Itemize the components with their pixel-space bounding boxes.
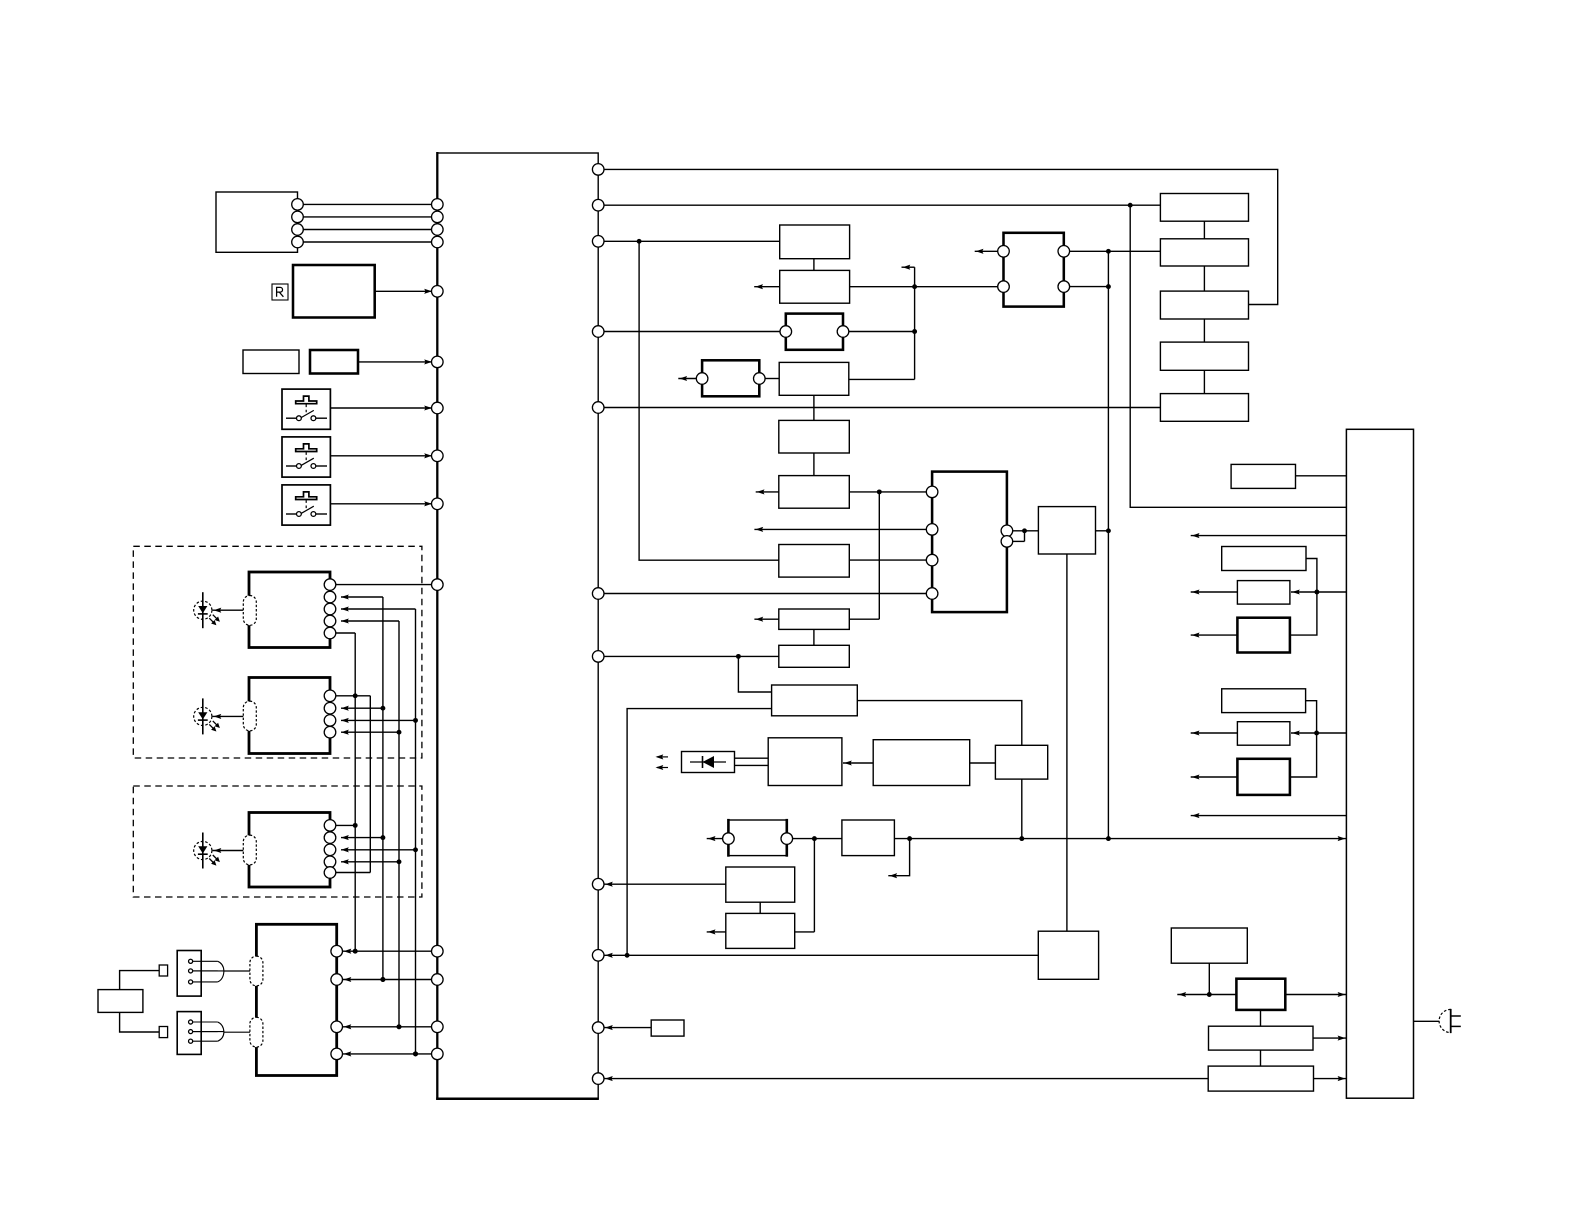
wire tuner bus 4 — [298, 241, 438, 243]
stub arrow J pin1 left — [975, 249, 998, 254]
pin IC right 4 — [592, 326, 604, 338]
pin block A — [324, 579, 336, 591]
pin block H left — [696, 373, 708, 385]
pin block A — [324, 627, 336, 639]
stub arrow H left — [678, 376, 696, 381]
display block C — [249, 813, 330, 888]
block F2 — [780, 270, 850, 303]
wire F5-F6 — [813, 453, 815, 476]
pin block C — [324, 856, 336, 868]
wire Q3 branch — [1290, 592, 1317, 635]
pin key block D — [331, 1021, 343, 1033]
pin block T1 right — [781, 833, 793, 845]
pin IC right 10 — [592, 1022, 604, 1034]
block F8 — [779, 609, 850, 629]
stub arrow below T2 — [888, 839, 909, 879]
block K1 — [1160, 194, 1248, 222]
wire K1-K2 — [1203, 221, 1205, 239]
wire Q6 branch — [1290, 733, 1317, 777]
wire IC pin7 to F9 — [604, 654, 779, 659]
block T2 — [842, 820, 895, 856]
block T3 — [726, 867, 795, 902]
pin block J — [1058, 246, 1070, 258]
wire IC pin4 to G — [604, 331, 780, 333]
pin IC — [432, 211, 444, 223]
wire M right pins to N — [1013, 528, 1039, 541]
pin block H right — [754, 373, 766, 385]
wire F10 out to S3 — [857, 701, 1022, 746]
wire branch to F7 — [639, 241, 779, 560]
block V1 — [1171, 928, 1247, 963]
wire V2 to PSU — [1285, 992, 1346, 997]
wire H to F4 — [765, 378, 779, 380]
pin block J — [998, 246, 1010, 258]
block K5 — [1160, 394, 1248, 422]
IR diode box — [682, 752, 735, 773]
stub arrow Q5 left — [1191, 730, 1238, 735]
block K2 — [1160, 239, 1248, 266]
wire T3 to IC — [604, 882, 726, 887]
pin block A — [324, 603, 336, 615]
pin block A — [324, 591, 336, 603]
stub arrow V2 line — [1177, 992, 1236, 997]
connector capsule D1 — [250, 956, 263, 986]
block F1 — [780, 225, 850, 259]
display block B — [249, 678, 330, 754]
pin IC switch 2 — [432, 450, 444, 462]
wire switch S2 to IC — [330, 453, 432, 458]
wire W to IC — [604, 1025, 651, 1030]
wire S3 down — [1021, 779, 1023, 839]
pin IC right 3 — [592, 236, 604, 248]
wire net A3-B3-C3-D4 — [341, 606, 418, 1056]
wire diode to S1 double — [735, 758, 769, 765]
stub arrow Q3 left — [1191, 633, 1238, 638]
wire switch S3 to IC — [330, 501, 432, 506]
connector block J1 — [177, 951, 250, 997]
wire IC pin1 to K3 — [604, 169, 1278, 304]
pin key block D — [331, 945, 343, 957]
pin block T1 left — [723, 833, 735, 845]
wire V3-V4 — [1260, 1050, 1262, 1066]
IR diode symbol — [690, 756, 726, 768]
block V2 bold — [1236, 979, 1285, 1010]
wire PSU to plug — [1414, 1020, 1440, 1022]
vertical net F2-G-F4 — [849, 265, 917, 380]
block H bold — [702, 360, 759, 396]
block F4 — [779, 362, 849, 395]
wire net B1-C5 — [336, 696, 371, 873]
stub arrow F6 left — [756, 489, 779, 494]
stub arrow PSU line 1 — [1191, 533, 1347, 538]
bus vertical reset line — [1107, 251, 1109, 838]
wire IC pin11 to V4 — [604, 1076, 1208, 1081]
pin block C — [324, 832, 336, 844]
stub arrow Q2 left — [1191, 589, 1238, 594]
push switch S2 — [282, 437, 330, 477]
LED D2 — [194, 698, 220, 734]
wire tuner bus 3 — [298, 229, 438, 231]
wire K3-K4 — [1203, 319, 1205, 342]
connector capsule C — [243, 835, 256, 865]
block Q6 bold — [1237, 759, 1290, 795]
wire L to PSU — [1296, 475, 1347, 477]
wire LED D3 — [212, 848, 243, 853]
pin block M left — [926, 524, 938, 536]
pin block G left — [780, 326, 792, 338]
wire tuner bus 2 — [298, 216, 438, 218]
wire Q1 branch — [1306, 559, 1319, 595]
pin IC — [432, 974, 444, 986]
block G gate bold — [786, 314, 843, 350]
stub arrow M pin2 — [754, 527, 926, 532]
pin IC — [432, 236, 444, 248]
wire to IC — [358, 359, 432, 364]
wire K2-K3 — [1203, 266, 1205, 291]
pin IC right 11 — [592, 1073, 604, 1085]
pin IC right 2 — [592, 199, 604, 211]
pin IC right 1 — [592, 164, 604, 176]
block J twin-pin — [1004, 233, 1064, 307]
block S2 — [873, 740, 970, 786]
connector capsule B — [243, 701, 256, 731]
wire V2-V3 — [1260, 1010, 1262, 1026]
wire V4 to PSU — [1314, 1076, 1347, 1081]
terminal square 1 — [159, 965, 167, 976]
power supply block — [1346, 429, 1413, 1098]
pin tuner — [292, 211, 304, 223]
block S3 — [995, 745, 1047, 779]
pin block B — [324, 702, 336, 714]
pin IC — [432, 1021, 444, 1033]
wire branch to PSU mid — [1130, 205, 1346, 507]
wire S2 to S1 — [843, 760, 873, 765]
wire net A4-B4-C4-D3 — [341, 618, 401, 1029]
wire F6 to M pin1 — [849, 489, 926, 494]
wire IC pin9 to U — [604, 953, 1038, 958]
block V4 — [1208, 1066, 1313, 1091]
stub arrow T4 left — [707, 929, 726, 934]
wire J right pin1 to K2 — [1070, 249, 1161, 254]
pin IC right 6 — [592, 588, 604, 600]
pin block C — [324, 820, 336, 832]
stub arrow F2 left — [754, 284, 780, 289]
block K4 — [1160, 342, 1248, 370]
display block A — [249, 572, 330, 648]
block U — [1038, 931, 1098, 979]
pin IC right 9 — [592, 950, 604, 962]
wire N out to reset line — [1096, 528, 1111, 533]
wire S2 to S3 — [970, 762, 996, 764]
wire G out — [849, 331, 915, 333]
wire V3 to PSU — [1313, 1036, 1346, 1041]
wire F8-F9 — [813, 629, 815, 645]
dashed enclosure display 2 — [133, 786, 422, 897]
LED D3 — [194, 833, 220, 869]
wire key block D pin3 to IC — [343, 1024, 438, 1029]
block Q2 — [1237, 581, 1290, 605]
key block D — [256, 924, 336, 1075]
pin block A — [324, 615, 336, 627]
pin IC — [432, 356, 444, 368]
wire battery to terminal 2 — [120, 1012, 160, 1032]
pin IC — [432, 945, 444, 957]
wire PSU to Q2 — [1291, 589, 1346, 594]
pin block M left — [926, 588, 938, 600]
pin block B — [324, 690, 336, 702]
block W — [651, 1020, 684, 1036]
wire Q4 branch — [1306, 701, 1319, 736]
main system control IC U1 — [436, 152, 599, 1100]
block F9 — [779, 645, 850, 667]
pin key block D — [331, 1048, 343, 1060]
pin IC right 7 — [592, 651, 604, 663]
wire IC pin6 to M pin4 — [604, 593, 926, 595]
pin block J — [998, 281, 1010, 293]
pin block M right 2 — [1001, 536, 1013, 548]
wire tuner bus 1 — [298, 203, 438, 205]
wire IC pin5 to K5 — [604, 407, 1160, 409]
pin IC — [432, 224, 444, 236]
wire battery to terminal 1 — [120, 971, 160, 990]
wire A1 to IC — [336, 584, 438, 586]
wire net A2-B2-C2-D2 — [341, 594, 385, 982]
wire switch S1 to IC — [330, 405, 432, 410]
block K3 — [1160, 291, 1248, 319]
pin block C — [324, 867, 336, 879]
dashed enclosure display 1 — [133, 546, 422, 758]
pin key block D — [331, 974, 343, 986]
AC plug — [1439, 1009, 1461, 1033]
pin tuner — [292, 224, 304, 236]
push switch S3 — [282, 485, 330, 525]
pin IC A1 — [432, 579, 444, 591]
pin block G right — [837, 326, 849, 338]
connector capsule D2 — [250, 1017, 263, 1047]
pin block M right 1 — [1001, 525, 1013, 537]
block Q3 bold — [1237, 618, 1290, 653]
pin tuner — [292, 236, 304, 248]
block F5 — [779, 420, 850, 453]
wire LED D2 — [212, 714, 243, 719]
block Q4 — [1222, 689, 1306, 713]
R symbol — [272, 284, 288, 300]
stub arrow Q6 left — [1191, 774, 1238, 779]
wire LED D1 — [212, 608, 243, 613]
pin block M left — [926, 554, 938, 566]
wire key block D pin1 to IC — [343, 949, 438, 954]
block F7 — [779, 545, 850, 578]
pin IC switch 1 — [432, 402, 444, 414]
pin IC — [432, 1048, 444, 1060]
wire T2 out long to PSU — [894, 836, 1346, 841]
pin block B — [324, 726, 336, 738]
wire T1 to T2 — [793, 836, 842, 841]
wire J right pin2 join — [1070, 284, 1111, 289]
wire V1 down — [1207, 963, 1212, 997]
wire IC pin2 to K1 — [604, 203, 1160, 208]
wire F4-F5 — [813, 395, 815, 420]
pin block M left — [926, 486, 938, 498]
block S1 — [768, 738, 842, 786]
tuner block — [216, 192, 298, 252]
pin IC IR — [432, 286, 444, 298]
wire K4-K5 — [1203, 370, 1205, 393]
pin block C — [324, 844, 336, 856]
terminal square 2 — [159, 1027, 167, 1038]
wire net A5-B1-C1-D1 — [336, 633, 371, 954]
block Q1 — [1222, 547, 1306, 571]
wire T3-T4 — [759, 902, 761, 913]
wire F7 to M pin3 — [849, 559, 926, 561]
wire IR to IC — [375, 289, 432, 294]
block M bold — [932, 472, 1007, 612]
pin IC right 8 — [592, 878, 604, 890]
wire PSU to Q5 — [1291, 730, 1346, 735]
wire F1-F2 — [813, 259, 815, 271]
push switch S1 — [282, 389, 330, 429]
IR remote sensor block — [293, 265, 375, 318]
wire key block D pin4 to IC — [343, 1051, 438, 1056]
connector block J2 — [177, 1012, 250, 1055]
wire branch to F10 lower — [627, 709, 772, 956]
wire branch to F10 upper — [738, 656, 771, 692]
block F6 — [779, 476, 850, 509]
stub arrow PSU line 2 — [1191, 813, 1347, 818]
wire IC pin3 to F1 — [604, 239, 780, 244]
block T4 — [726, 913, 795, 948]
wire key block D pin2 to IC — [343, 977, 438, 982]
LED D1 — [194, 592, 220, 628]
pin IC switch 3 — [432, 498, 444, 510]
pin block B — [324, 715, 336, 727]
stub arrow F8 left — [754, 617, 778, 622]
pin IC right 5 — [592, 402, 604, 414]
IR emission arrows — [656, 754, 669, 770]
pin IC — [432, 199, 444, 211]
block L — [1231, 464, 1295, 488]
block T1 bold — [728, 819, 786, 857]
wire F2 to J pin2 — [850, 284, 998, 289]
vertical F6-F8 — [849, 492, 879, 619]
battery block — [98, 990, 143, 1013]
block right small bold — [310, 350, 358, 374]
pin block J — [1058, 281, 1070, 293]
stub arrow T1 left — [707, 836, 723, 841]
block left small — [243, 350, 299, 374]
pin tuner — [292, 199, 304, 211]
wire T4 riser — [795, 839, 815, 932]
connector capsule A — [243, 596, 256, 626]
block N — [1038, 507, 1095, 554]
block F10 — [772, 685, 858, 716]
block Q5 — [1237, 722, 1290, 746]
wire N down to U — [1066, 554, 1068, 931]
block V3 — [1209, 1026, 1314, 1050]
